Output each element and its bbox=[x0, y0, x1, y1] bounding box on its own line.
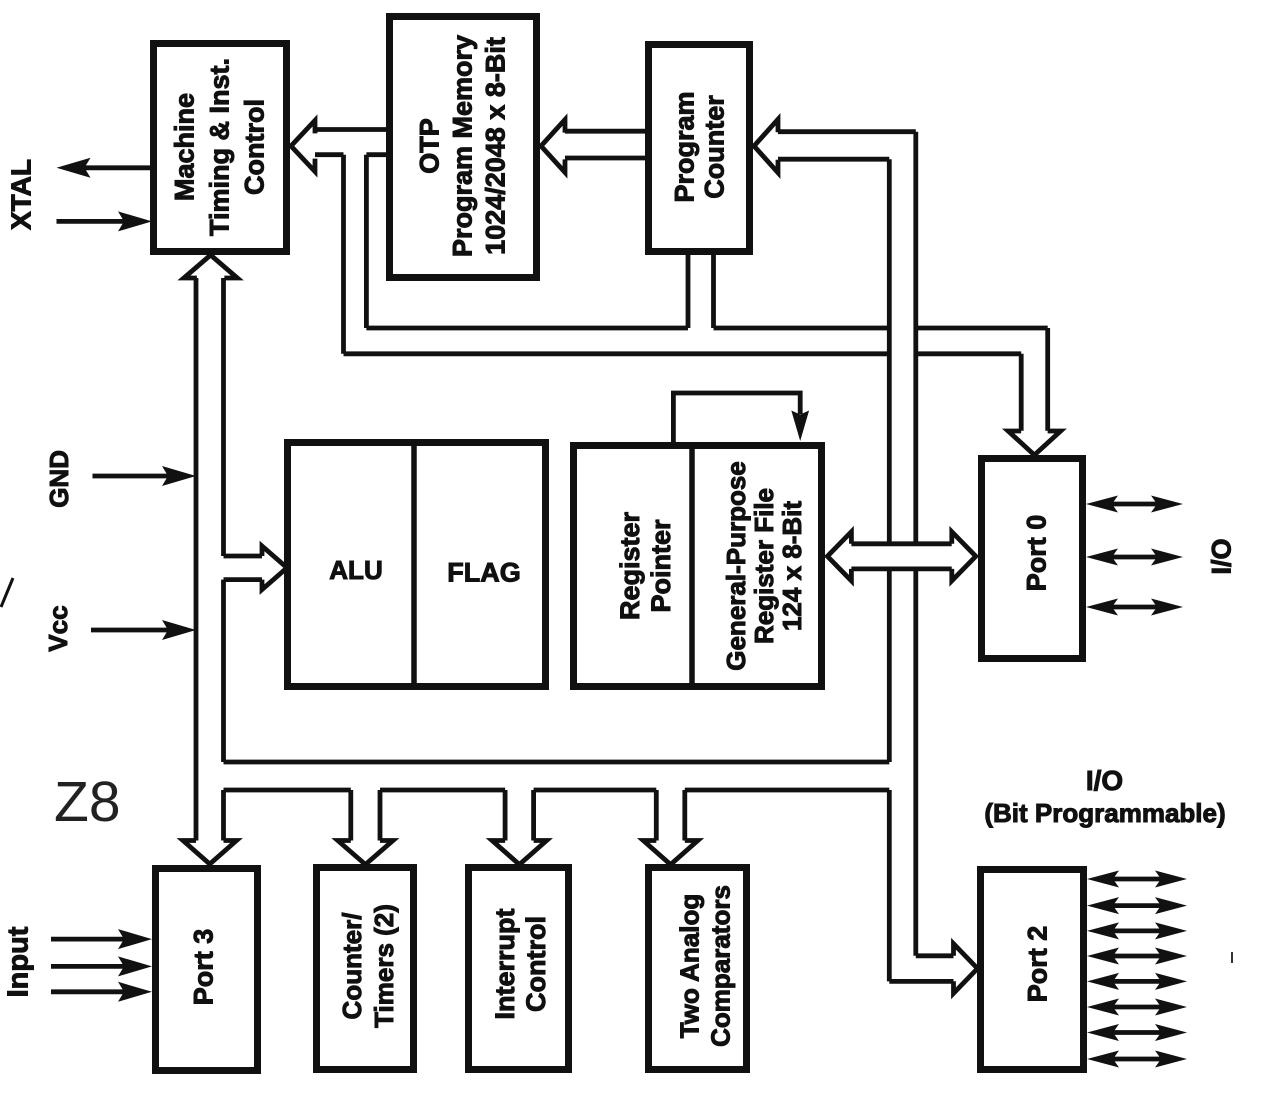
svg-text:Register: Register bbox=[615, 511, 645, 620]
svg-text:Pointer: Pointer bbox=[646, 519, 676, 613]
svg-text:I/O: I/O bbox=[1086, 765, 1123, 796]
svg-text:Two Analog: Two Analog bbox=[675, 894, 705, 1038]
svg-text:OTP: OTP bbox=[414, 118, 444, 174]
svg-text:Interrupt: Interrupt bbox=[490, 908, 520, 1019]
svg-text:Comparators: Comparators bbox=[706, 885, 736, 1047]
svg-text:FLAG: FLAG bbox=[447, 557, 521, 587]
svg-text:XTAL: XTAL bbox=[5, 159, 36, 230]
svg-text:Counter/: Counter/ bbox=[337, 913, 367, 1020]
svg-text:Port 3: Port 3 bbox=[188, 929, 218, 1006]
svg-text:ALU: ALU bbox=[329, 555, 382, 585]
svg-text:Vcc: Vcc bbox=[43, 605, 73, 651]
svg-text:Z8: Z8 bbox=[54, 770, 121, 834]
svg-text:GND: GND bbox=[44, 450, 74, 508]
svg-text:124 x 8-Bit: 124 x 8-Bit bbox=[777, 501, 807, 631]
svg-text:Control: Control bbox=[239, 99, 269, 195]
svg-text:Port 2: Port 2 bbox=[1022, 926, 1052, 1003]
svg-text:Register File: Register File bbox=[749, 488, 779, 644]
svg-text:Program Memory: Program Memory bbox=[447, 35, 477, 257]
svg-text:Machine: Machine bbox=[169, 93, 199, 201]
svg-text:Timing & Inst.: Timing & Inst. bbox=[204, 58, 234, 236]
svg-text:Input: Input bbox=[2, 926, 34, 997]
svg-text:Program: Program bbox=[669, 91, 699, 202]
svg-text:Counter: Counter bbox=[699, 95, 729, 199]
svg-text:General-Purpose: General-Purpose bbox=[721, 461, 751, 671]
svg-text:Timers (2): Timers (2) bbox=[369, 904, 399, 1028]
svg-text:Control: Control bbox=[521, 916, 551, 1012]
svg-text:1024/2048 x 8-Bit: 1024/2048 x 8-Bit bbox=[480, 37, 510, 255]
svg-text:Port 0: Port 0 bbox=[1021, 515, 1051, 592]
svg-text:I/O: I/O bbox=[1206, 538, 1236, 574]
svg-text:(Bit Programmable): (Bit Programmable) bbox=[984, 798, 1225, 828]
